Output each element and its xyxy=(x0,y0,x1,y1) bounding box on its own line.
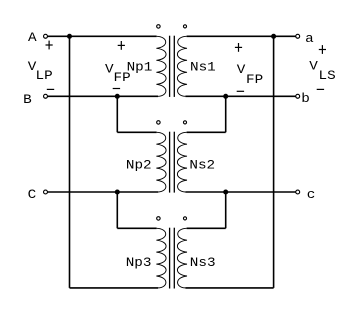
svg-text:Ns1: Ns1 xyxy=(190,61,216,75)
svg-text:B: B xyxy=(23,94,32,108)
wire B to Np1 bottom xyxy=(47,95,158,97)
wire bottom right to Ns3 bottom xyxy=(185,287,273,289)
node C junction xyxy=(115,189,120,194)
node A junction xyxy=(67,34,72,39)
svg-text:V: V xyxy=(309,60,318,74)
minus VLP xyxy=(47,88,54,90)
svg-text:LP: LP xyxy=(36,70,53,84)
polarity dot Np2 xyxy=(157,121,161,125)
wire right rail a junction to bottom xyxy=(273,36,275,288)
svg-text:a: a xyxy=(305,33,314,47)
wire to Ns3 top xyxy=(187,227,226,229)
wire Ns2 bottom to c xyxy=(185,191,295,193)
plus VLS xyxy=(319,49,326,51)
svg-text:Np3: Np3 xyxy=(126,257,152,271)
wire to Np2 top xyxy=(117,131,156,133)
wire C junction down xyxy=(116,192,118,228)
polarity dot Ns1 xyxy=(183,25,186,28)
polarity dot Ns2 xyxy=(183,121,186,124)
svg-text:LS: LS xyxy=(319,70,336,84)
svg-text:A: A xyxy=(28,32,38,46)
wire left rail A junction to bottom xyxy=(69,36,71,288)
terminal b xyxy=(296,94,300,98)
core T1 xyxy=(169,36,171,97)
winding Ns2 xyxy=(177,132,187,192)
core T3 xyxy=(169,228,171,289)
polarity dot Np3 xyxy=(157,217,161,221)
terminal c xyxy=(296,190,300,194)
node B junction xyxy=(115,94,120,99)
svg-text:V: V xyxy=(237,64,246,78)
svg-text:c: c xyxy=(307,189,316,203)
svg-text:V: V xyxy=(105,63,114,77)
winding Ns1 xyxy=(177,36,187,96)
node c junction xyxy=(223,189,228,194)
minus VFP primary xyxy=(113,88,120,90)
terminal A xyxy=(44,34,48,38)
svg-text:C: C xyxy=(28,189,37,203)
wire c junction down xyxy=(225,192,227,228)
wire B junction down xyxy=(116,96,118,132)
minus VFP secondary xyxy=(237,90,244,92)
terminal C xyxy=(44,190,48,194)
svg-text:Ns2: Ns2 xyxy=(189,159,215,173)
wire A to Np1 top xyxy=(47,35,156,37)
node b junction xyxy=(223,94,228,99)
svg-text:b: b xyxy=(301,93,310,107)
winding Np3 xyxy=(156,228,166,288)
winding Np2 xyxy=(156,132,166,192)
wire Ns1 bottom to b xyxy=(185,95,295,97)
core T2 xyxy=(169,132,171,193)
wire b junction down xyxy=(225,96,227,132)
wire to Ns2 top xyxy=(187,131,226,133)
node a junction xyxy=(271,34,276,39)
svg-text:Ns3: Ns3 xyxy=(190,257,216,271)
winding Np1 xyxy=(156,36,166,96)
terminal a xyxy=(296,34,300,38)
plus VLP xyxy=(46,44,53,46)
svg-text:Np2: Np2 xyxy=(126,159,152,173)
winding Ns3 xyxy=(177,228,187,288)
wire C to Np2 bottom xyxy=(47,191,158,193)
svg-text:Np1: Np1 xyxy=(127,61,153,75)
wire bottom left to Np3 bottom xyxy=(70,287,159,289)
wire to Np3 top xyxy=(117,227,156,229)
polarity dot Np1 xyxy=(157,25,161,29)
svg-text:FP: FP xyxy=(246,74,263,88)
minus VLS xyxy=(317,88,324,90)
wire Ns1 top to a xyxy=(187,35,296,37)
plus VFP primary xyxy=(118,44,125,46)
plus VFP secondary xyxy=(235,46,242,48)
polarity dot Ns3 xyxy=(183,217,186,220)
terminal B xyxy=(44,94,48,98)
